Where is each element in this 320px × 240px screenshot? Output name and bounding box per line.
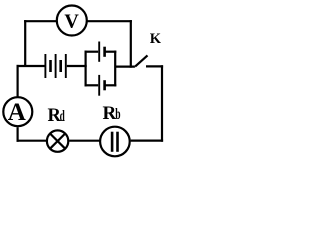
component Rb bar 1 <box>111 132 114 152</box>
parallel cells top cell long plate <box>98 42 100 62</box>
battery cell plate short 2 <box>59 60 62 72</box>
parallel cells right bracket <box>114 51 116 87</box>
wire: switch right contact <box>146 65 163 67</box>
battery cell plate short 1 <box>49 60 52 72</box>
svg-text:b: b <box>115 104 120 122</box>
battery cell plate long 1 <box>44 54 46 78</box>
switch K blade <box>135 55 147 66</box>
ammeter A1 circle <box>3 97 32 126</box>
wire: bottom left segment <box>17 140 47 142</box>
wire: right column vertical <box>161 65 163 141</box>
svg-text:V: V <box>64 11 79 33</box>
wire: left column upper vertical <box>17 65 19 97</box>
wire: bottom right segment <box>131 140 164 142</box>
wire: top-left horizontal (V branch) <box>24 20 56 22</box>
wire: V-branch right vertical <box>130 20 132 68</box>
parallel cells bottom cell short plate <box>103 80 106 90</box>
wire: V-branch left vertical <box>24 20 26 66</box>
parallel cells top cell short plate <box>103 47 106 57</box>
parallel cells left bracket <box>84 51 86 87</box>
parallel cells top rail right <box>105 51 117 53</box>
wire: parallel cells to switch <box>115 65 135 67</box>
svg-text:d: d <box>60 106 66 124</box>
wire: battery row left segment <box>17 65 45 67</box>
lamp Rd cross line 1 <box>50 134 65 149</box>
svg-text:R: R <box>103 103 117 124</box>
wire: bottom middle segment <box>69 140 99 142</box>
wire: left column lower vertical <box>17 127 19 142</box>
parallel cells top rail left <box>85 51 99 53</box>
parallel cells bottom rail left <box>85 84 99 86</box>
svg-text:K: K <box>150 31 162 47</box>
lamp Rd cross line 2 <box>50 134 65 149</box>
parallel cells bottom cell long plate <box>98 75 100 96</box>
voltmeter V1 circle <box>57 6 87 36</box>
battery cell plate long 2 <box>55 54 57 78</box>
component Rb bar 2 <box>116 132 119 152</box>
parallel cells bottom rail right <box>105 84 117 86</box>
svg-text:A: A <box>8 99 26 126</box>
battery cell plate long 3 <box>65 54 67 78</box>
wire: battery to parallel cells <box>67 65 87 67</box>
wire: top-right horizontal (V branch) <box>88 20 132 22</box>
lamp Rd circle <box>47 130 68 151</box>
component Rb circle <box>100 127 130 157</box>
